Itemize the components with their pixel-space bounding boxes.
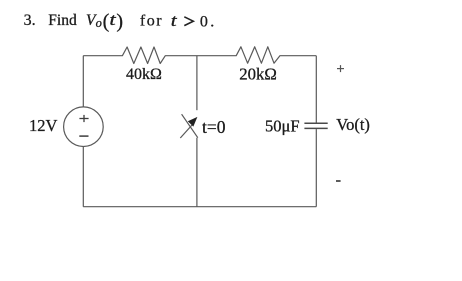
svg-text:o: o (96, 16, 102, 30)
svg-text:0.: 0. (200, 13, 217, 30)
svg-text:t: t (171, 11, 177, 30)
svg-text:50μF: 50μF (265, 117, 300, 136)
svg-text:20kΩ: 20kΩ (239, 65, 277, 84)
svg-text:40kΩ: 40kΩ (126, 66, 162, 83)
svg-text:t=0: t=0 (202, 117, 226, 137)
svg-text:Vo(t): Vo(t) (336, 115, 370, 134)
svg-text:Find: Find (48, 12, 77, 29)
svg-text:for: for (140, 13, 163, 30)
svg-text:12V: 12V (29, 116, 58, 135)
svg-text:): ) (116, 10, 123, 32)
svg-text:3.: 3. (24, 12, 36, 29)
